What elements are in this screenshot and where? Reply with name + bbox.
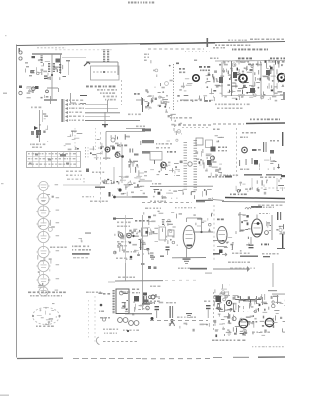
wire ground stub [58, 88, 60, 92]
coil L2 [59, 63, 61, 66]
zc cluster f3 [143, 293, 163, 305]
label to antenna [31, 107, 33, 109]
rf dark blob 2 [250, 70, 270, 93]
rf dark blob 1 [219, 72, 237, 83]
long vertical d2 [142, 215, 144, 310]
wire audio bus [113, 196, 148, 199]
wire plate top [187, 218, 202, 232]
audio det cluster [102, 181, 145, 197]
flyback marks [236, 214, 251, 234]
left small marks e2 [77, 233, 91, 244]
omega f3 [170, 323, 174, 327]
yoke top tick [52, 303, 55, 304]
twin lead right [42, 110, 44, 122]
audio right column [130, 240, 144, 258]
long wire center [125, 215, 127, 263]
power transformer inner [119, 291, 130, 312]
f4 faint bottom row [252, 346, 253, 347]
wire conn row2 [85, 104, 108, 106]
wire tuner ground bus [47, 87, 58, 89]
AGC dashed bus [178, 124, 213, 126]
wire rf v1 [221, 62, 223, 95]
wire rf v2 [231, 61, 233, 96]
hout tube bracket [217, 247, 227, 254]
lightning arrester [31, 126, 41, 135]
terminal J4 [19, 91, 22, 94]
label above hbus2 [230, 188, 285, 195]
cable ladder right [194, 139, 198, 142]
connector pin rows [62, 99, 85, 122]
cable ladder left [184, 141, 188, 144]
capacitor C3 [35, 86, 39, 89]
squiggle marks top [193, 213, 212, 227]
terminal strip box [27, 152, 81, 168]
wire plate right [193, 231, 213, 233]
vert osc rows left [72, 246, 91, 259]
htext row [178, 268, 207, 270]
label 3rd overtone [232, 49, 233, 51]
junction node tuner [51, 74, 53, 76]
wire antenna bus [32, 53, 62, 55]
tuner lower cluster [27, 86, 49, 98]
resistor R1 [25, 62, 34, 76]
cap c50 [249, 237, 254, 248]
antenna terminal J1 [19, 51, 22, 54]
schematic border bottom segment 2 [73, 358, 141, 360]
video bus line [150, 185, 213, 187]
label above hbus [208, 175, 285, 178]
dashed drop pwr [94, 296, 96, 342]
yoke ellipse [33, 308, 60, 325]
horizontal bus dark [213, 198, 285, 203]
label V2 top [270, 58, 285, 63]
yoke inner marks [37, 309, 57, 325]
video text row [150, 201, 205, 203]
wire tuner drop [51, 54, 53, 99]
terminal strip labels [28, 153, 76, 165]
right edge stub top [283, 92, 285, 100]
f4 top cluster [213, 294, 289, 313]
power transformer box [116, 289, 129, 314]
delay line box B [206, 140, 213, 148]
horiz osc tube V8 [183, 226, 195, 249]
label TP [194, 60, 197, 62]
right col cluster b [203, 73, 214, 102]
arrester marks [36, 113, 48, 142]
antenna terminal J2 [19, 57, 22, 60]
audio tube A [118, 233, 122, 237]
left margin tick [1, 183, 4, 184]
horiz left box [140, 227, 158, 244]
audio tube B [127, 233, 135, 238]
output bus faint [165, 279, 200, 281]
f4 dark blob left [216, 296, 222, 302]
peaking cluster [150, 160, 182, 176]
f4 mid cluster [214, 313, 285, 337]
bottom left page mark [0, 395, 9, 396]
border tick [207, 38, 209, 47]
label T101 [199, 66, 210, 71]
arrow pot [208, 228, 211, 232]
IF marks top [145, 96, 211, 122]
IF mid gap cluster [167, 123, 183, 142]
label video bus [152, 183, 153, 185]
audio cluster [113, 229, 149, 256]
video det box [150, 152, 162, 161]
label freq [103, 158, 110, 160]
lower left cluster b [145, 89, 170, 108]
sound IF parts [109, 134, 142, 148]
tube V3 envelope [193, 75, 200, 82]
hv cage dashes [88, 300, 90, 340]
tuner corner mark [19, 48, 21, 52]
wire riser v2 [142, 98, 144, 112]
wire lower antenna [26, 87, 35, 89]
heater chain marks [37, 194, 54, 287]
choke marks [166, 302, 176, 318]
terminal strip line 2 [27, 161, 81, 163]
wire shield top [86, 62, 118, 75]
wire preamp bus [63, 184, 100, 186]
f4 label row [212, 340, 215, 342]
left col marks d4 [211, 163, 222, 176]
damper cluster [265, 221, 271, 234]
label 9 arrow [252, 149, 261, 151]
shield dashes d2 [86, 147, 89, 158]
schematic border left [16, 45, 18, 358]
wire transformer out [125, 313, 152, 315]
wire video bus [140, 180, 152, 182]
left margin mark [3, 35, 7, 94]
wire conn row6 [85, 120, 140, 122]
heater labels [28, 292, 66, 297]
f4 tube V11 [239, 319, 257, 328]
wire rf v3 [260, 62, 262, 95]
boost line [213, 266, 250, 272]
transformer T1 secondary [53, 62, 55, 65]
tube V1 envelope [239, 75, 247, 83]
wire right vert [68, 60, 70, 75]
cr bracket [235, 296, 261, 300]
contrast ring [188, 162, 192, 166]
vert bus left [108, 281, 115, 283]
label JY50 [248, 64, 251, 66]
schematic border top [17, 42, 286, 46]
dashed drop d2b [95, 128, 97, 150]
sync right text [270, 140, 279, 154]
pwr text rows [103, 329, 139, 334]
ratio detector rows [66, 171, 82, 180]
wire riser v1 [107, 100, 109, 112]
wire shield stub [84, 62, 90, 66]
sync text rows [240, 132, 256, 138]
junction antenna feed [102, 112, 108, 128]
section divider dots [185, 51, 210, 53]
f4 right label [252, 332, 255, 333]
power transformer winding ticks [113, 289, 115, 292]
right edge bar [282, 132, 283, 146]
sync bottom text [240, 169, 249, 171]
label horiz rows [145, 207, 196, 209]
schematic border top dark seg [140, 43, 215, 44]
label s10 [217, 219, 220, 221]
mixer box small [56, 59, 61, 63]
ground horiz osc [183, 259, 191, 264]
yoke label [36, 326, 38, 328]
sound IF box [106, 132, 145, 161]
horiz top cluster [143, 211, 182, 226]
wire conn row4 [85, 112, 120, 114]
bottom rows e4 b [228, 262, 255, 269]
divider dark seg [196, 199, 213, 201]
tuner misc cluster [36, 59, 66, 80]
label left c2 [210, 58, 213, 60]
upper left cluster b [151, 60, 173, 88]
wire rf v5 [273, 64, 275, 95]
hv wire right [268, 263, 285, 295]
heading dashes above border [228, 39, 284, 41]
horiz mid box [159, 227, 178, 246]
volume marks [86, 169, 112, 185]
section divider dashed [148, 48, 204, 50]
dashed drop d2a [74, 128, 76, 150]
wire mixer link [66, 60, 70, 61]
AGC dashed bus 2 [182, 127, 210, 129]
wire IF input dotted [173, 64, 175, 110]
f4 left ring [226, 300, 231, 305]
label row left c [213, 47, 215, 49]
label mid f3 [150, 286, 152, 288]
ground f3 [186, 313, 192, 318]
label top e4 [251, 206, 274, 208]
discriminator transformer 2 [115, 153, 120, 158]
width coil marks [215, 284, 231, 296]
pads e3 [141, 263, 157, 269]
sound column right [128, 149, 138, 169]
tuner shield dashed line [37, 47, 66, 49]
wire conn row3 [85, 108, 118, 110]
terminal strip dividers [32, 152, 34, 168]
wire sound v2 [113, 167, 115, 184]
ground marks e3 [150, 256, 164, 260]
divider dashed e4 [213, 205, 215, 262]
label 96 [261, 244, 262, 246]
transformer right cluster [132, 289, 149, 316]
video amp marks [195, 149, 216, 172]
left col text d4 [213, 129, 224, 143]
twin lead left [39, 110, 41, 142]
resistor R7 [176, 63, 185, 74]
audio stage marks [119, 167, 147, 182]
wire B+ text [118, 277, 121, 279]
wire link faint [62, 57, 86, 59]
capacitor C40 [166, 247, 170, 256]
label pwr top [86, 292, 110, 295]
RF cluster [213, 60, 286, 102]
heater chain tubes [36, 181, 59, 296]
ac plug bracket [96, 337, 99, 345]
audio stage rows [117, 220, 149, 227]
label FM antenna [128, 114, 130, 116]
sync ring [242, 147, 248, 153]
divider dashed mid [142, 202, 192, 204]
wire dropper dashed [121, 80, 123, 105]
wire left dash [80, 95, 87, 104]
hbus line2 [172, 257, 206, 259]
wire conn row5 [85, 116, 110, 118]
sync label rows [215, 104, 250, 110]
rf heading dash row [215, 45, 217, 47]
capacitor C2a [31, 70, 35, 73]
wire yoke line [213, 240, 222, 242]
filter cap C60 [150, 301, 160, 319]
schematic border bottom segment 4 [213, 356, 285, 359]
oscillator coil L3 [103, 49, 105, 52]
IF label row [170, 117, 172, 119]
video det ring [161, 162, 167, 168]
label B6 [134, 93, 136, 95]
delay line box A [196, 138, 203, 145]
wire damper top [257, 214, 270, 220]
audio box top [113, 218, 133, 220]
oscillator coil L4 [107, 49, 109, 52]
rectifier socket B [129, 321, 139, 326]
IF text pair [156, 143, 172, 149]
label T801 [238, 58, 252, 63]
capacitor C2 [44, 76, 48, 80]
sync cluster right [236, 178, 284, 195]
right bracket e4 [277, 234, 285, 249]
small marks f3 [169, 323, 210, 332]
pin list text [144, 54, 149, 62]
junction b2 [171, 319, 174, 322]
wire rf v4 [252, 64, 254, 95]
wire tuner drop 2 [60, 54, 62, 74]
IF coil bar 3 [142, 151, 150, 154]
sync transformer [211, 147, 228, 152]
terminal J3 [19, 86, 22, 89]
wire B+ drop [125, 263, 127, 281]
junction sound [121, 155, 124, 158]
discriminator transformer [105, 147, 110, 152]
junction b1 [151, 317, 154, 320]
noise gate bars [263, 142, 267, 152]
ac dashed line [103, 341, 138, 343]
hout tube V9 [217, 227, 227, 244]
IF transformer slug [93, 71, 116, 73]
wire sync v4 [276, 178, 278, 190]
wire e4 v2 [271, 215, 273, 240]
label f3 mid [177, 317, 180, 318]
f4 vertical strokes [219, 295, 278, 312]
label pol f [136, 126, 139, 128]
rectifier socket A [118, 318, 128, 323]
label plus b [142, 303, 150, 309]
sound IF box dashed edge [100, 132, 102, 203]
f4 tube V12 [265, 318, 273, 326]
ground tuner [44, 96, 57, 104]
sync bottom dashes [216, 174, 282, 176]
label arrester [30, 144, 45, 149]
capacitor C1 [32, 56, 36, 58]
label above AGC [250, 119, 252, 121]
squiggle e4 [245, 208, 251, 210]
bottom rows e4 [213, 253, 279, 258]
filter cap C61 [204, 301, 211, 319]
IF coil bar 2 [142, 140, 154, 143]
f4 divider dashes [213, 292, 215, 332]
label audio [82, 196, 108, 202]
dark dash d2 [95, 187, 105, 188]
tube V2 envelope [278, 74, 286, 82]
phase det ring [211, 156, 215, 160]
b+ wire dashed [150, 320, 208, 322]
wire sound v long [121, 146, 123, 183]
coil L1 [41, 55, 43, 58]
wire vert dash d2 [83, 178, 85, 184]
detector cluster d2 [90, 146, 109, 160]
tuner dashed line 2 [55, 49, 112, 51]
yoke vertex dots [32, 307, 61, 325]
transformer T1 primary [48, 62, 50, 65]
label below hbus [258, 205, 261, 207]
schematic border bottom segment 1 [17, 357, 63, 359]
shield divider dashed [236, 128, 238, 178]
wire RF top bus [215, 60, 285, 63]
schematic border bottom segment 3 [142, 358, 213, 360]
mid cluster b [177, 78, 202, 102]
component hooks row [153, 189, 213, 199]
pwr left marks [99, 293, 111, 322]
output bus [115, 280, 163, 282]
hsmall dash [205, 273, 212, 274]
e4 mid cluster [224, 236, 250, 252]
capacitor C41 [150, 253, 154, 256]
keyed AGC bus [213, 123, 285, 124]
wire e4 v1 [239, 212, 241, 232]
wire section bracket [71, 93, 77, 103]
terminal strip line 1 [27, 156, 81, 158]
damper tube V10 [252, 219, 263, 237]
balun cluster [64, 131, 104, 151]
IF transformer box T2 [91, 66, 120, 80]
wire sync v2 [251, 178, 253, 190]
det marks right [112, 146, 124, 157]
sync mid marks [239, 157, 280, 170]
wire RF bus [222, 95, 283, 97]
watermark text [128, 2, 154, 4]
label 8A [167, 151, 168, 153]
wire right stub [136, 97, 145, 105]
label 5U4 row [50, 247, 52, 249]
label block tuner [86, 86, 117, 101]
audio text rows [116, 241, 136, 260]
IF coil bar 1 [142, 129, 151, 132]
wire cathode [186, 247, 188, 258]
hv rect marks [276, 212, 287, 234]
sound IF box top [126, 128, 145, 130]
